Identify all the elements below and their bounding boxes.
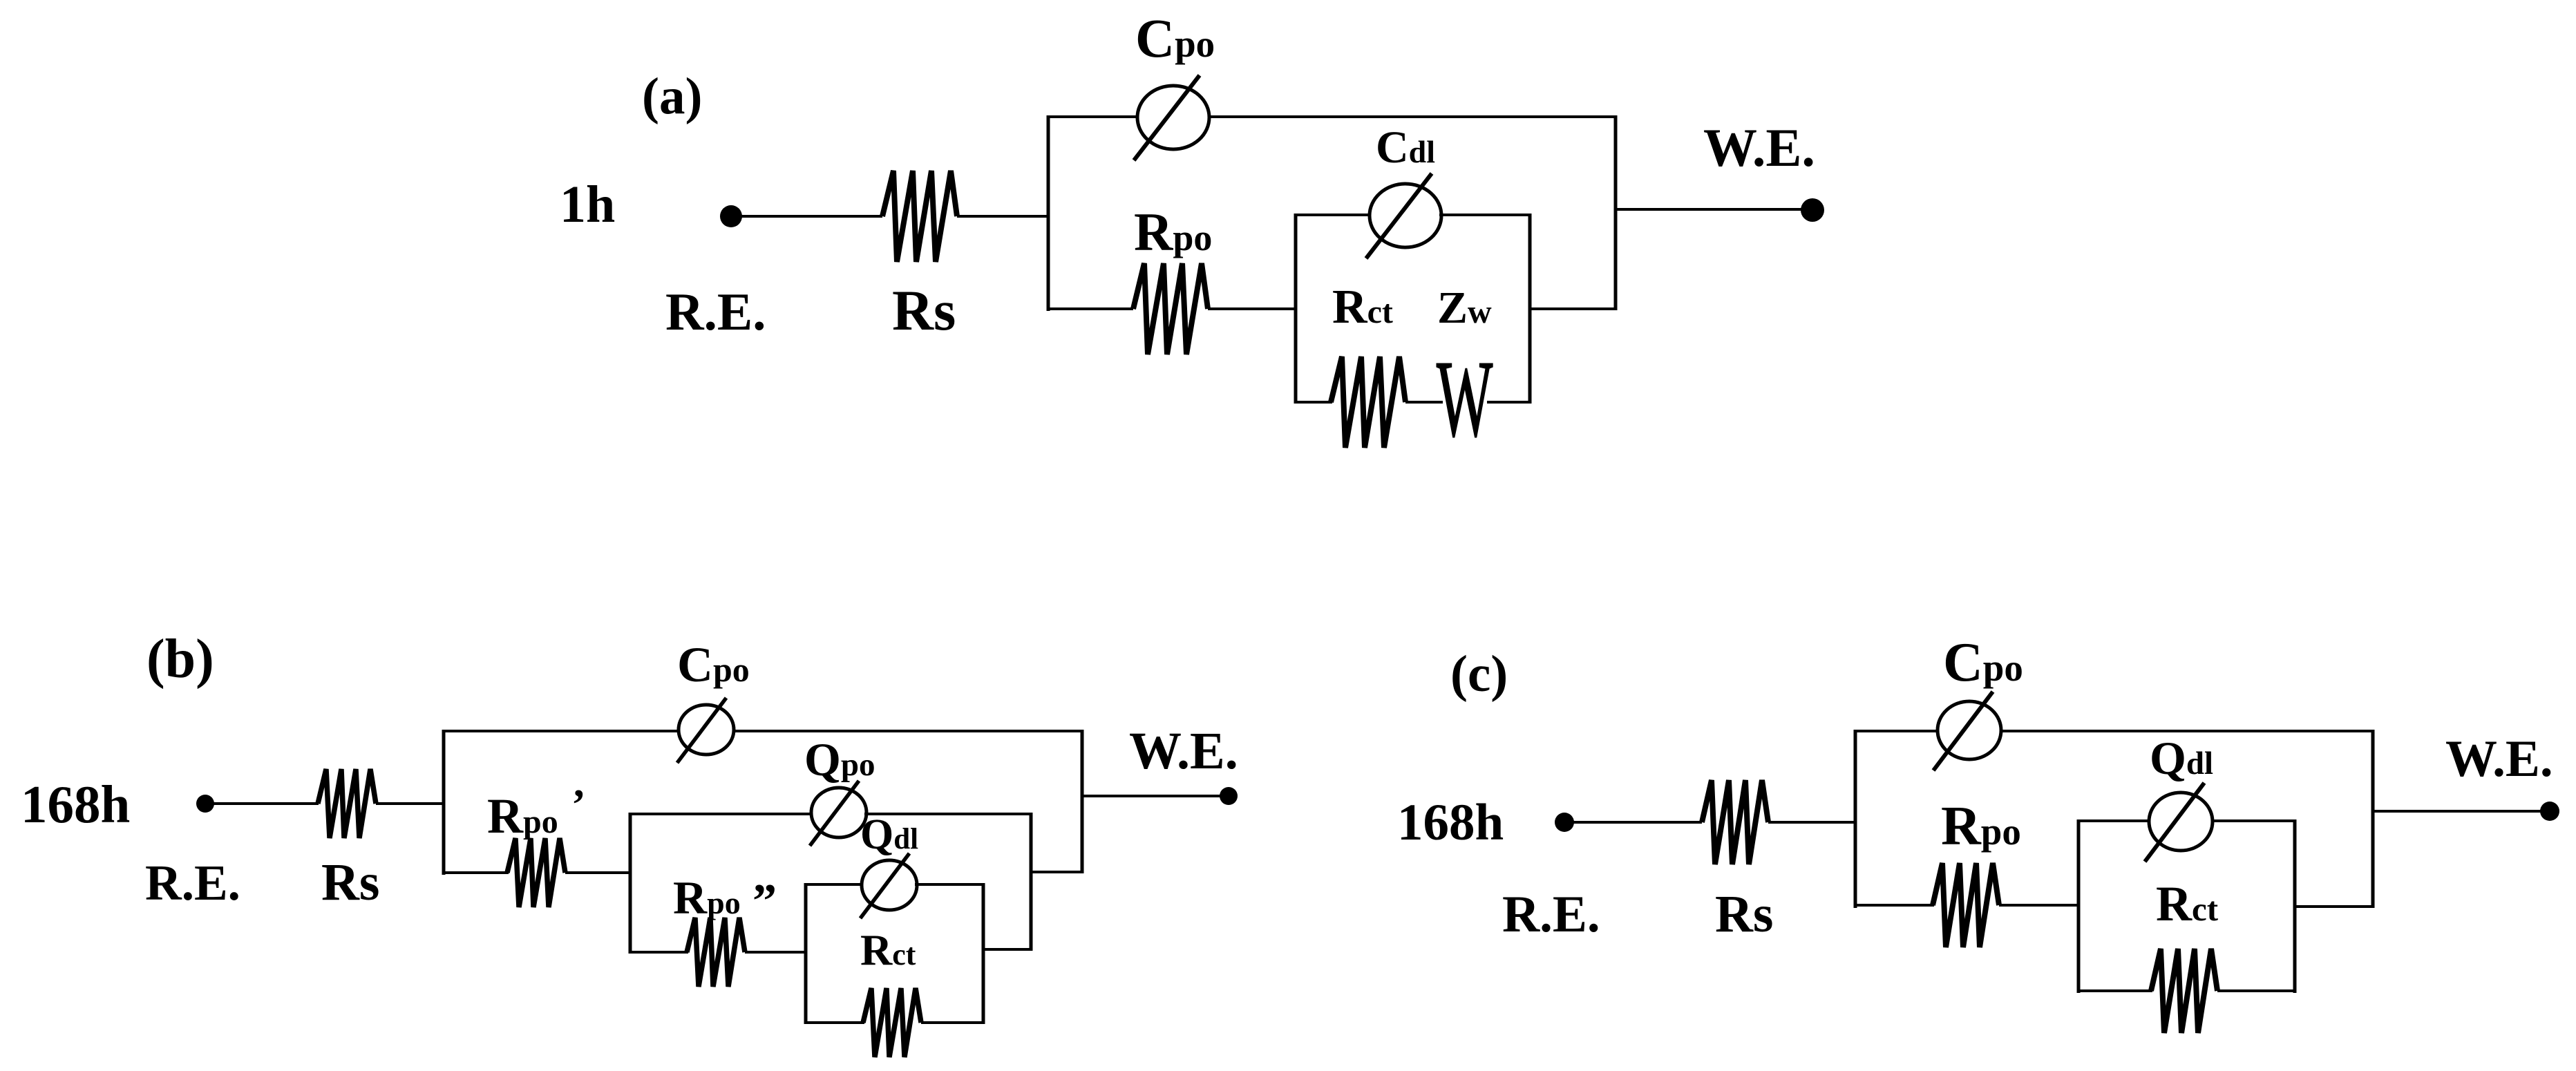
label Rpo (a) bbox=[1134, 202, 1212, 262]
label Rpo' (b) bbox=[487, 788, 558, 844]
circuit (a) caption bbox=[642, 68, 702, 125]
label Rpo'' (b) bbox=[673, 871, 741, 924]
label Rs (b) bbox=[321, 853, 379, 911]
svg-text:R.E.: R.E. bbox=[665, 282, 766, 341]
label 168h (c) bbox=[1397, 794, 1504, 851]
wire middle-right lead (b) bbox=[1031, 871, 1082, 873]
label Rs (c) bbox=[1715, 885, 1773, 943]
svg-text:Rs: Rs bbox=[321, 853, 379, 911]
wire top branch right (a) bbox=[1208, 115, 1616, 118]
CPE Qdl (c) bbox=[2145, 783, 2213, 862]
wire bbox=[1768, 821, 1855, 824]
wire inner top edge right (a) bbox=[1439, 214, 1531, 216]
wire top branch left (a) bbox=[1048, 115, 1139, 118]
resistor Rpo (a) bbox=[1133, 263, 1208, 354]
svg-text:W.E.: W.E. bbox=[2445, 730, 2553, 788]
resistor Rpo (c) bbox=[1933, 863, 1999, 947]
wire bbox=[1999, 904, 2078, 907]
svg-text:Rs: Rs bbox=[1715, 885, 1773, 943]
wire outer-left vertical (b) bbox=[442, 730, 446, 875]
wire top branch right (c) bbox=[2000, 730, 2373, 732]
wire top branch left (b) bbox=[444, 730, 680, 732]
wire inner-left vertical (b) bbox=[804, 883, 808, 1024]
wire outer-right vertical (c) bbox=[2371, 730, 2375, 908]
wire outer-right vertical (b) bbox=[1081, 730, 1084, 873]
wire bbox=[2217, 989, 2295, 992]
capacitor Cpo (a) bbox=[1134, 75, 1209, 160]
wire inner top edge left (a) bbox=[1296, 214, 1372, 216]
node W.E. (c) bbox=[2540, 802, 2559, 821]
resistor Rct (b) bbox=[863, 988, 921, 1057]
wire inner top edge right (b) bbox=[915, 883, 983, 886]
label R.E. (b) bbox=[145, 855, 240, 911]
wire inner bottom edge left (b) bbox=[806, 1021, 864, 1024]
svg-text:(a): (a) bbox=[642, 68, 702, 125]
label Rs (a) bbox=[892, 278, 956, 342]
label 1h (a) bbox=[560, 176, 615, 234]
wire inner top edge left (b) bbox=[806, 883, 864, 886]
label R.E. (c) bbox=[1502, 886, 1600, 943]
wire middle top edge left (b) bbox=[630, 813, 813, 815]
label Cpo (b) bbox=[677, 637, 750, 692]
wire inner-right vertical (b) bbox=[982, 883, 985, 1024]
resistor Rs (a) bbox=[882, 171, 957, 262]
wire inner bottom edge left (a) bbox=[1296, 401, 1332, 404]
wire output (c) bbox=[2373, 810, 2541, 813]
wire outer-left vertical (a) bbox=[1047, 115, 1050, 311]
CPE Qpo (b) bbox=[810, 781, 866, 846]
wire inner-right vertical (c) bbox=[2293, 819, 2297, 993]
label Qdl (b) bbox=[860, 811, 918, 858]
wire bbox=[205, 802, 319, 805]
circuit (b) caption bbox=[146, 629, 214, 690]
svg-text:”: ” bbox=[752, 875, 777, 928]
wire inner-right lead (b) bbox=[983, 948, 1031, 951]
wire middle bottom edge left (b) bbox=[630, 951, 688, 954]
label Qpo (b) bbox=[804, 733, 875, 786]
wire bbox=[731, 215, 882, 218]
wire bbox=[921, 1021, 983, 1024]
capacitor Cdl (a) bbox=[1366, 173, 1441, 258]
node W.E. (a) bbox=[1801, 198, 1824, 222]
node R.E. (c) bbox=[1555, 813, 1574, 832]
wire bbox=[957, 215, 1048, 218]
label Rct (c) bbox=[2156, 876, 2219, 931]
svg-text:(b): (b) bbox=[146, 629, 214, 690]
svg-text:Rs: Rs bbox=[892, 278, 956, 342]
resistor Rpo'' (b) bbox=[687, 918, 745, 987]
wire bbox=[1208, 307, 1296, 310]
wire bbox=[1564, 821, 1702, 824]
wire inner-right vertical (a) bbox=[1528, 214, 1532, 404]
wire bbox=[376, 802, 444, 805]
label Rpo (c) bbox=[1941, 796, 2021, 857]
CPE Qdl (b) bbox=[860, 853, 917, 918]
wire outer-left vertical (c) bbox=[1854, 730, 1857, 908]
resistor Rct (c) bbox=[2151, 949, 2217, 1033]
wire bbox=[1405, 401, 1443, 404]
svg-text:R.E.: R.E. bbox=[1502, 886, 1600, 943]
wire inner-left vertical (c) bbox=[2077, 819, 2081, 993]
svg-text:R.E.: R.E. bbox=[145, 855, 240, 911]
wire bottom branch left (a) bbox=[1048, 307, 1133, 310]
label W.E. (c) bbox=[2445, 730, 2553, 788]
label W.E. (b) bbox=[1129, 722, 1238, 780]
capacitor Cpo (b) bbox=[677, 698, 734, 763]
label prime of Rpo' (b) bbox=[571, 781, 586, 828]
svg-text:(c): (c) bbox=[1450, 645, 1508, 703]
svg-text:168h: 168h bbox=[1397, 794, 1504, 851]
label Rct (b) bbox=[860, 925, 916, 974]
label Zw (a) bbox=[1437, 283, 1492, 333]
wire top branch right (b) bbox=[732, 730, 1082, 732]
wire middle-left vertical (b) bbox=[629, 813, 632, 954]
wire output (a) bbox=[1616, 208, 1805, 211]
wire middle-right vertical (b) bbox=[1030, 813, 1033, 951]
label double prime of Rpo'' (b) bbox=[752, 875, 777, 928]
svg-text:168h: 168h bbox=[21, 775, 130, 834]
wire inner top edge right (c) bbox=[2211, 819, 2295, 822]
label Rct (a) bbox=[1332, 281, 1393, 334]
label Qdl (c) bbox=[2150, 732, 2213, 784]
wire bottom branch left (c) bbox=[1855, 904, 1934, 907]
label Cpo (a) bbox=[1135, 9, 1215, 69]
wire bbox=[565, 871, 630, 874]
wire inner-left vertical (a) bbox=[1294, 214, 1298, 404]
svg-text:W.E.: W.E. bbox=[1129, 722, 1238, 780]
label 168h (b) bbox=[21, 775, 130, 834]
wire output (b) bbox=[1082, 795, 1221, 797]
circuit (c) caption bbox=[1450, 645, 1508, 703]
wire inner top edge left (c) bbox=[2078, 819, 2150, 822]
wire inner bottom edge left (c) bbox=[2078, 989, 2152, 992]
svg-text:W.E.: W.E. bbox=[1703, 117, 1815, 178]
label R.E. (a) bbox=[665, 282, 766, 341]
capacitor Cpo (c) bbox=[1933, 692, 2001, 770]
wire top branch left (c) bbox=[1855, 730, 1939, 732]
resistor Rct (a) bbox=[1331, 357, 1405, 448]
resistor Rs (c) bbox=[1702, 780, 1768, 864]
node W.E. (b) bbox=[1220, 787, 1238, 805]
wire bbox=[745, 951, 806, 954]
svg-text:’: ’ bbox=[571, 781, 586, 828]
resistor Rpo' (b) bbox=[507, 838, 565, 907]
wire bbox=[1487, 401, 1531, 404]
wire inner-right lead (a) bbox=[1530, 307, 1616, 310]
node R.E. (b) bbox=[196, 795, 214, 813]
wire middle top edge right (b) bbox=[864, 813, 1031, 815]
resistor Rs (b) bbox=[318, 769, 376, 838]
node R.E. (a) bbox=[720, 205, 742, 227]
label W.E. (a) bbox=[1703, 117, 1815, 178]
wire inner-right lead (c) bbox=[2295, 905, 2373, 908]
wire outer-right vertical (a) bbox=[1614, 115, 1618, 310]
wire bottom branch left (b) bbox=[444, 871, 509, 874]
Warburg element Zw (a) bbox=[1437, 339, 1493, 459]
svg-text:1h: 1h bbox=[560, 176, 615, 234]
label Cdl (a) bbox=[1376, 122, 1435, 173]
label Cpo (c) bbox=[1943, 632, 2023, 693]
svg-text:W: W bbox=[1437, 339, 1493, 459]
